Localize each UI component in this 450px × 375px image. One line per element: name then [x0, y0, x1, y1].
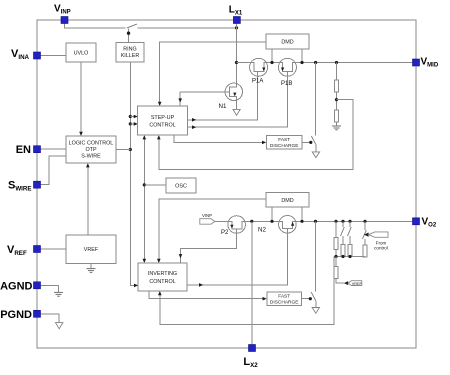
wire bus to step-up in1 [130, 116, 136, 118]
ground pgnd symbol under N1 [233, 109, 240, 115]
node rail fd1 [314, 61, 317, 64]
wire PGND pin [40, 314, 59, 323]
wire VINP rail to switch [65, 24, 126, 28]
wire step-up to fast discharge 1 [174, 135, 264, 142]
wire N1 gate [180, 91, 225, 93]
svg-text:DISCHARGE: DISCHARGE [270, 299, 299, 305]
arrow vref flag [344, 281, 348, 285]
wire VO2 rail [237, 220, 416, 222]
resistor R2 [334, 110, 338, 122]
svg-text:DISCHARGE: DISCHARGE [270, 143, 299, 149]
pin SWIRE [34, 181, 41, 188]
wire fast discharge 2 output [302, 298, 311, 300]
wire vref block ground [90, 264, 92, 269]
arrow into step-up left2 [134, 122, 138, 126]
block LOGIC CONTROL [66, 136, 116, 163]
node rail-DMD1 left [270, 61, 273, 64]
svg-text:STEP-UP: STEP-UP [151, 115, 175, 121]
wire DMD1 stub right [301, 49, 303, 63]
wire DMD2 stub right [301, 207, 303, 221]
arrow into fast discharge 1 [262, 141, 266, 145]
flag from control [369, 232, 388, 237]
node osc junction [143, 183, 146, 186]
ground agnd symbol divider [332, 126, 341, 130]
arrow into step-up left1 [134, 115, 138, 119]
wire fb row to inverting bottom [160, 257, 334, 325]
node bus step-up in2 [129, 122, 132, 125]
svg-text:P2: P2 [221, 230, 229, 236]
arrow mid on N1 gate drop [178, 98, 182, 102]
node rail DMD2 right [300, 220, 303, 223]
block FAST DISCHARGE 2 [267, 292, 302, 306]
arrow into step-up control top left [158, 102, 162, 106]
bus osc vertical [143, 136, 145, 262]
block DMD1 [266, 34, 309, 49]
feedback network branch Rd with switch [363, 220, 366, 223]
block UVLO [66, 43, 96, 62]
wire DMD2 left feed to inverting [159, 199, 266, 262]
pin VMID [413, 59, 420, 66]
wire R1 to R2 [336, 92, 338, 110]
wire rail to fd2 switch [315, 221, 317, 291]
wire fd2 switch to ground [315, 301, 317, 308]
pin PGND [34, 310, 41, 317]
arrow on out1 [192, 118, 196, 122]
wire rail to fd1 switch [315, 63, 317, 136]
feedback network branch Ra [334, 220, 337, 223]
wire DMD1 left feed [160, 42, 266, 105]
ground pgnd symbol fd2 [312, 308, 319, 314]
svg-text:DMD: DMD [281, 40, 293, 46]
pin VINA [34, 52, 41, 59]
pin VREF [34, 246, 41, 253]
block DMD2 [266, 193, 309, 208]
IC boundary border [37, 20, 416, 348]
svg-text:FAST: FAST [278, 294, 290, 300]
svg-text:P1A: P1A [252, 79, 263, 85]
wire VMID rail [237, 62, 417, 64]
node rail-DMD1 right [300, 61, 303, 64]
svg-text:RING: RING [123, 46, 136, 52]
svg-text:OSC: OSC [175, 184, 187, 190]
arrow into inverting top osc [143, 259, 147, 263]
arrow into step-up bottom osc [143, 135, 147, 139]
transistor P1B [278, 58, 296, 76]
svg-text:VREF: VREF [352, 282, 363, 286]
wire N1 source to ground [236, 100, 238, 109]
wire R2 to ground [336, 122, 338, 126]
wire DMD2 stub left [271, 207, 273, 221]
wire step-up out1 to P1A gate [188, 76, 258, 120]
wire SWIRE to logic control [40, 156, 66, 185]
pin VO2 [413, 218, 420, 225]
wire logic to vref block [87, 164, 89, 235]
node divider tap [335, 98, 338, 101]
transistor N2 [279, 216, 297, 234]
node bus logic control [129, 148, 132, 151]
wire step-up out2 to P1B gate [188, 76, 288, 127]
wire fast discharge 1 output [302, 141, 311, 143]
feedback network branch Rb with switch [341, 220, 344, 223]
ground agnd symbol [54, 292, 63, 296]
svg-text:control: control [374, 245, 388, 250]
transistor P2 [228, 216, 246, 234]
bus ring killer to inverting control left [130, 62, 136, 285]
wire switch to LX1 node [137, 27, 236, 29]
arrow from control flag [364, 233, 369, 237]
flag VREF [348, 281, 362, 286]
node bus step-up in1 [129, 115, 132, 118]
svg-text:INVERTING: INVERTING [148, 271, 177, 277]
svg-text:S-WIRE: S-WIRE [81, 154, 101, 160]
svg-text:P1B: P1B [281, 81, 292, 87]
wire Re to VREF flag [335, 257, 337, 267]
switch S1 (ring killer bypass) blade [127, 24, 137, 28]
svg-text:LOGIC CONTROL: LOGIC CONTROL [69, 141, 114, 147]
arrow on inverting right output [199, 283, 203, 287]
svg-text:DMD: DMD [281, 198, 293, 204]
wire DMD1 stub left [271, 49, 273, 63]
pin LX2 [249, 345, 256, 352]
node fd1 switch [309, 141, 312, 144]
arrow into ring killer [127, 32, 130, 35]
wire LX2 vertical [251, 221, 253, 344]
block OSC [166, 178, 196, 193]
node rail LX2 [250, 220, 253, 223]
resistor R1 [334, 80, 338, 92]
svg-text:FAST: FAST [278, 137, 290, 143]
wire UVLO to logic control [80, 62, 82, 135]
svg-text:UVLO: UVLO [74, 50, 89, 56]
arrow into fast discharge 2 [263, 297, 267, 301]
pin EN [34, 146, 41, 153]
pin LX1 [233, 17, 240, 24]
block STEP-UP CONTROL [138, 106, 188, 135]
block RING KILLER [116, 43, 144, 63]
wire osc to bus [144, 184, 166, 186]
wire bus to step-up in2 [130, 123, 136, 125]
flag VINP [200, 219, 215, 225]
wire N1 gate drop to step-up [179, 92, 181, 105]
transistor N1 [225, 83, 242, 100]
node row joins [334, 256, 365, 258]
wire LX1 vertical [236, 24, 238, 85]
pin VINP [61, 17, 68, 24]
ground agnd symbol vref [87, 269, 96, 273]
feedback network branch Rc with switch [348, 220, 351, 223]
node rail divider [335, 61, 338, 64]
wire switch drop to ring killer [128, 29, 130, 43]
wire fd1 switch to ground [315, 145, 317, 152]
arrow mid on P2 gate line [179, 254, 183, 258]
svg-text:CONTROL: CONTROL [149, 279, 175, 285]
svg-text:VREF: VREF [84, 247, 99, 253]
node LX1 rail junction [235, 61, 238, 64]
svg-text:VINP: VINP [202, 213, 212, 218]
svg-text:KILLER: KILLER [121, 53, 140, 59]
arrow into step-up bottom fb [157, 135, 161, 139]
wire VREF pin to vref block [40, 248, 66, 250]
pin AGND [34, 282, 41, 289]
block INVERTING CONTROL [138, 263, 187, 291]
svg-text:AGND: AGND [0, 280, 32, 292]
arrow into inverting top2 [157, 259, 161, 263]
ground pgnd symbol [56, 323, 63, 329]
wire P2 gate to inverting [181, 233, 237, 262]
transistor P1A [250, 58, 268, 76]
svg-text:N2: N2 [258, 226, 266, 233]
wire logic control output to bus [116, 149, 130, 151]
svg-text:PGND: PGND [0, 309, 32, 321]
wire rail to R1 [336, 63, 338, 81]
wire VINA to UVLO [40, 55, 66, 57]
switch fd1 blade [311, 136, 316, 145]
wire VINP flag to P2 [215, 220, 237, 222]
node rail fd2 [314, 220, 317, 223]
wire feedback tap to step-up [159, 100, 353, 170]
node LX1 junction [235, 26, 238, 29]
svg-text:CONTROL: CONTROL [149, 123, 175, 129]
block FAST DISCHARGE 1 [267, 136, 303, 150]
switch fd2 blade [311, 292, 316, 301]
svg-text:OTP: OTP [85, 147, 96, 153]
block VREF [66, 235, 116, 264]
wire inverting to fast discharge 2 [149, 291, 265, 299]
wire AGND pin [40, 285, 58, 292]
arrow into inverting control left [134, 284, 138, 288]
svg-text:EN: EN [16, 144, 31, 156]
ground pgnd symbol fd1 [312, 152, 319, 158]
arrow into inverting bottom [158, 291, 162, 295]
resistor Re [334, 267, 338, 279]
node rail DMD2 left [270, 220, 273, 223]
arrow on out2 [192, 125, 196, 129]
arrow into logic control bottom [86, 163, 90, 167]
wire inverting right to N2 gate [187, 233, 287, 285]
wire EN to logic control [40, 148, 66, 150]
node fd2 switch [309, 297, 312, 300]
svg-text:N1: N1 [219, 103, 227, 110]
arrow into logic control top [79, 132, 83, 136]
